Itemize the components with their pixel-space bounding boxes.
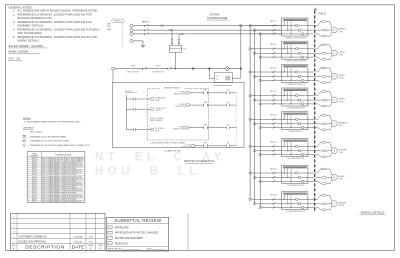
svg-text:PB1: PB1 [156,66,159,68]
svg-text:4055-4: 4055-4 [32,189,37,191]
svg-text:SELECTOR SW: SELECTOR SW [127,71,139,73]
svg-text:1. INSTRUMENT WIRES SHOWN FOR: 1. INSTRUMENT WIRES SHOWN FOR REFERENCE … [24,121,82,123]
svg-text:PB2: PB2 [204,102,207,104]
svg-text:MCC-8: MCC-8 [271,195,277,197]
svg-text:MCC-1: MCC-1 [271,21,277,23]
svg-text:SALES ORDER: SO13962: SALES ORDER: SO13962 [9,44,44,48]
svg-text:TO SCREW FEEDER MOTOR: TO SCREW FEEDER MOTOR [286,211,305,213]
svg-text:PUMP 1: PUMP 1 [339,75,346,77]
svg-text:NUMBER: NUMBER [31,156,39,158]
svg-text:4049-2: 4049-2 [32,176,37,178]
svg-text:TO RETURN PUMP MOTOR: TO RETURN PUMP MOTOR [286,107,304,109]
svg-text:TO MIXER DRIVE MOTOR: TO MIXER DRIVE MOTOR [287,185,304,187]
svg-text:ISSUED FOR APPROVAL: ISSUED FOR APPROVAL [18,240,47,243]
svg-text:ALL DIMENSIONS ARE IN INCHES U: ALL DIMENSIONS ARE IN INCHES UNLESS OTHE… [18,10,99,13]
svg-text:APPROVED WITH NOTED CHANGES: APPROVED WITH NOTED CHANGES [115,232,159,235]
svg-text:MCC-3: MCC-3 [271,67,277,69]
svg-text:10 HP: 10 HP [339,78,345,80]
svg-text:MIXER: MIXER [339,176,345,178]
svg-text:ON/OFF: ON/OFF [155,110,161,112]
svg-text:STARTER PANEL: STARTER PANEL [207,16,228,20]
svg-text:3.: 3. [13,21,15,24]
svg-text:PB3: PB3 [204,125,207,127]
svg-text:4040-1: 4040-1 [32,158,37,160]
svg-text:12/21/05: 12/21/05 [74,241,83,243]
svg-text:4: 4 [13,227,14,229]
svg-text:BASKET FILTER JB: BASKET FILTER JB [164,87,180,90]
svg-text:PUSHBUTTON: PUSHBUTTON [153,71,165,73]
svg-text:PB4: PB4 [204,143,207,145]
svg-text:--: -- [99,241,101,243]
svg-text:TM: TM [89,241,92,243]
svg-text:4042-3: 4042-3 [32,162,37,164]
svg-text:PB1: PB1 [204,90,207,92]
svg-text:CP-4040: CP-4040 [210,13,220,16]
svg-text:4057-2: 4057-2 [32,193,37,195]
svg-text:SUBMITTAL REVIEW: SUBMITTAL REVIEW [114,218,162,223]
svg-text:1.: 1. [13,10,15,13]
svg-text:3: 3 [13,232,14,234]
svg-text:FEEDER: FEEDER [339,202,347,204]
svg-text:MCC-6: MCC-6 [271,142,277,144]
svg-text:NOMENCLATURE: NOMENCLATURE [55,153,71,156]
svg-text:MCC-2: MCC-2 [271,44,277,46]
svg-text:QTY: 02: QTY: 02 [9,56,21,60]
svg-text:6: 6 [13,217,14,219]
svg-text:WIRING DETAILS.: WIRING DETAILS. [18,40,40,43]
svg-text:5.: 5. [13,36,15,39]
svg-text:TO INFEED CONVEYOR MOTOR: TO INFEED CONVEYOR MOTOR [285,61,306,63]
svg-text:FIELD: FIELD [319,13,326,16]
svg-text:01/18/08: 01/18/08 [74,236,83,238]
svg-text:1/2 HP: 1/2 HP [339,205,345,207]
svg-text:4047-4: 4047-4 [32,172,37,174]
svg-text:COMPUTER FILE NO: ICS3500-P-WR: COMPUTER FILE NO: ICS3500-P-WR-11963 [71,252,96,254]
svg-text:4050-3: 4050-3 [32,178,37,180]
svg-text:BASKET: BASKET [339,28,347,31]
svg-text:TERMINAL BLOCK IN STARTER PANE: TERMINAL BLOCK IN STARTER PANEL [30,136,67,139]
svg-text:APPROVED: APPROVED [115,226,129,229]
svg-text:4052-1: 4052-1 [32,182,37,184]
svg-text:4060-1: 4060-1 [32,199,37,201]
svg-text:PUMP MOTOR: PUMP MOTOR [176,106,187,108]
svg-text:REVISE AND RESUBMIT: REVISE AND RESUBMIT [115,237,144,240]
svg-text:TERMINAL BLOCK IN PLC/RTU (FUT: TERMINAL BLOCK IN PLC/RTU (FUTURE) [30,140,69,143]
svg-text:WIRING DETAILS: WIRING DETAILS [361,211,384,215]
svg-text:XXXX INTERPOSING CONTROL PANEL: XXXX INTERPOSING CONTROL PANEL [151,141,186,144]
svg-text:REJECTED: REJECTED [115,242,128,245]
svg-text:M2: M2 [227,143,229,145]
svg-text:MCC-5: MCC-5 [271,115,277,117]
svg-text:4059-4: 4059-4 [32,197,37,199]
svg-text:4046-3: 4046-3 [32,170,37,172]
svg-text:CONVEYOR IS: CONVEYOR IS [155,108,165,110]
svg-text:AGITATOR: AGITATOR [339,121,349,124]
svg-text:4051-4: 4051-4 [32,180,37,182]
svg-text:PUMP 2: PUMP 2 [339,99,346,101]
svg-text:4048-1: 4048-1 [32,174,37,176]
svg-text:MOTOR SCHEMATICS: MOTOR SCHEMATICS [184,159,214,163]
svg-text:HIGH: HIGH [155,130,159,132]
svg-text:M1: M1 [227,125,229,127]
svg-text:1: 1 [13,242,14,244]
svg-text:4058-3: 4058-3 [32,195,37,197]
svg-text:4.: 4. [13,29,15,32]
svg-text:MY LEVEL IS: MY LEVEL IS [155,128,164,130]
svg-text:4044-1: 4044-1 [32,166,37,168]
svg-text:LOCATED ON SKID: LOCATED ON SKID [164,149,182,152]
svg-text:T: T [24,136,25,138]
svg-text:42: 42 [216,79,218,81]
svg-text:OPEN: OPEN [155,100,159,102]
svg-text:4061-2: 4061-2 [32,201,37,203]
svg-text:DATE:: DATE: [147,247,153,250]
svg-text:4056-1: 4056-1 [32,191,37,193]
svg-text:BUILDING MATERIALS LIST.: BUILDING MATERIALS LIST. [18,17,53,20]
svg-text:RUNNING: RUNNING [155,120,163,122]
svg-text:CONV 1: CONV 1 [339,52,346,54]
svg-text:MAIN CB: MAIN CB [142,21,150,24]
svg-text:TM: TM [89,236,92,238]
svg-text:CUSTOMER COMMENTS: CUSTOMER COMMENTS [18,235,47,238]
svg-text:2.: 2. [13,13,15,16]
svg-text:10 HP: 10 HP [339,101,345,103]
svg-text:MCC-XXXX-X: MCC-XXXX-X [30,132,43,134]
svg-text:MCC-7: MCC-7 [271,168,277,170]
svg-text:HOU B LL: HOU B LL [95,166,201,178]
svg-text:ASSEMBLY DETAILS.: ASSEMBLY DETAILS. [18,25,44,28]
svg-text:4053-2: 4053-2 [32,184,37,186]
svg-text:AND TAP DRAWING.: AND TAP DRAWING. [18,32,43,35]
svg-text:TO STOP: TO STOP [184,145,191,147]
svg-text:FROM MCC: FROM MCC [114,21,122,23]
svg-text:DESCRIPTION: DESCRIPTION [25,245,64,251]
svg-text:5: 5 [13,222,14,224]
svg-text:P: P [24,141,25,143]
svg-text:4043-4: 4043-4 [32,164,37,166]
svg-text:MCC-4: MCC-4 [271,91,277,93]
svg-text:WORK ORDER: --: WORK ORDER: -- [9,49,33,53]
svg-text:TERMINAL BLOCK FOR FIELD AND P: TERMINAL BLOCK FOR FIELD AND PANEL/SKID … [30,144,90,147]
svg-text:CPT: CPT [183,49,186,51]
svg-text:4054-3: 4054-3 [32,187,37,189]
svg-text:MY PUMP IS: MY PUMP IS [155,118,164,120]
svg-text:2: 2 [13,237,14,239]
svg-text:BLOWER: BLOWER [339,149,347,151]
svg-text:DATE: DATE [72,245,85,251]
svg-text:4041-2: 4041-2 [32,160,37,162]
svg-text:REFERENCE ICS DRAWING ICS3500: REFERENCE ICS DRAWING ICS3500-P-WR-11963… [18,13,92,16]
svg-text:4045-2: 4045-2 [32,168,37,170]
svg-text:APPROVED BY:: APPROVED BY: [108,247,122,250]
